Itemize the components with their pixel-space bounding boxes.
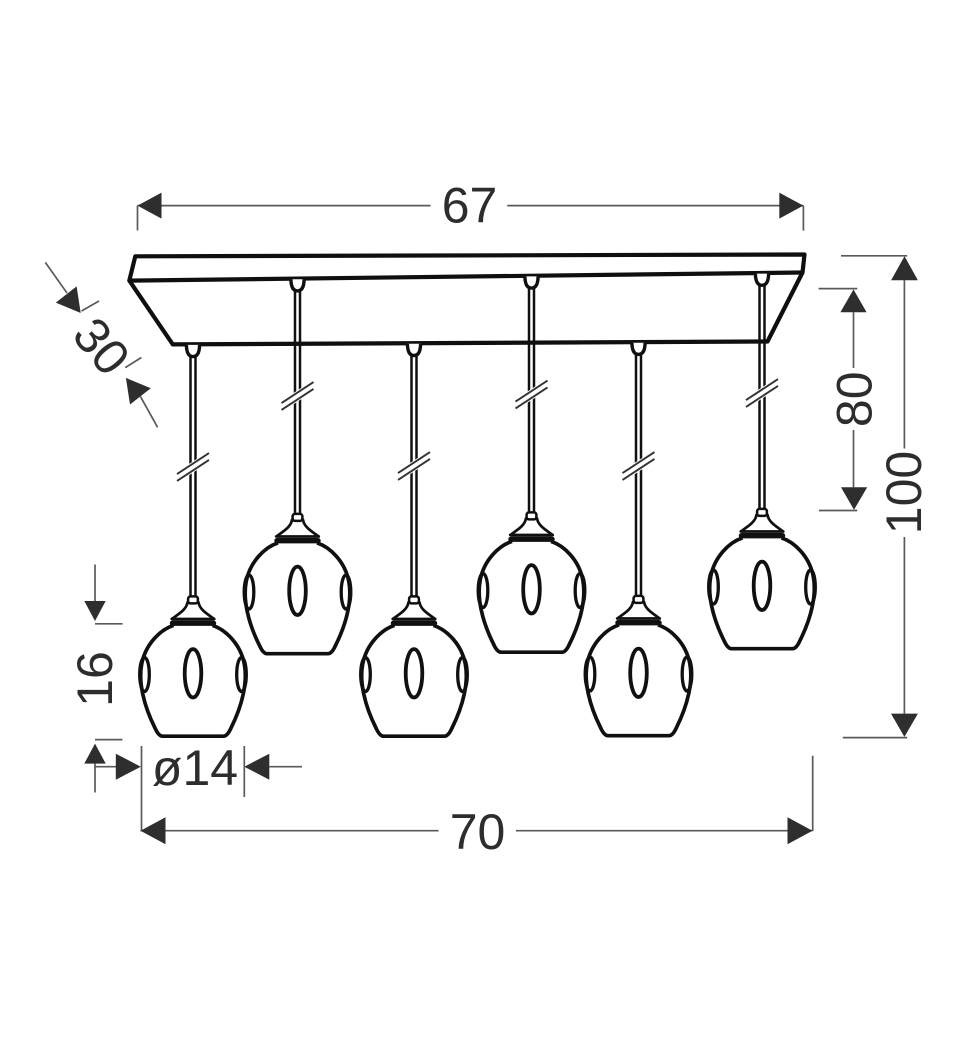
pendant 4 cord break [516,381,548,409]
dimension 30 lower arrow [126,378,151,405]
dimension 67 left extension line [137,206,139,231]
dimension 16 line upper segment [94,565,96,602]
dimension o14 left extension line [141,746,143,831]
dimension 80 line lower segment [853,430,855,487]
pendant 2 grip [291,279,304,291]
dimension 70 left arrow [141,817,166,844]
dimension 67 right extension line [802,206,804,231]
svg-text:80: 80 [827,371,883,427]
svg-text:70: 70 [450,804,506,860]
dimension 80 top extension line [819,288,858,290]
ceiling plate back bottom edge [129,273,802,281]
pendant 6 grip [755,274,768,286]
pendant 1 fitter [172,596,215,619]
pendant 4 cord [528,288,531,515]
pendant 2 cord break [282,382,314,410]
dimension 16 upper tick [95,623,123,625]
dimension 16 up arrow [84,744,105,764]
pendant 5 cord [635,354,638,598]
dimension 100 bottom extension line [843,737,907,739]
pendant 1 cord break [177,453,209,481]
dimension 80 top arrow [840,290,866,313]
pendant 2 fitter [276,514,319,537]
dimension 30 upper tick [82,301,100,311]
pendant 1 shade [140,623,247,736]
dimension 67 line left segment [138,205,431,207]
dimension 100 top arrow [891,256,918,280]
pendant 5 fitter [617,596,660,619]
dimension 67 line right segment [507,205,803,207]
dimension 30 lower tick [125,358,141,368]
pendant 3 shade [361,623,468,736]
pendant 5 shade [585,623,692,736]
pendant 3 cord [410,355,413,598]
pendant 5 grip [632,343,645,355]
dimension 70 right extension line [812,756,814,831]
dimension o14 left arrow [116,754,141,780]
svg-text:67: 67 [442,177,498,233]
pendant 6 cord break [746,379,778,407]
svg-text:ø14: ø14 [152,740,238,796]
pendant 6 cord [758,285,761,511]
svg-text:100: 100 [876,451,932,534]
svg-text:16: 16 [67,651,123,707]
dimension 100 line upper segment [903,280,905,449]
pendant 2 shade [244,541,351,654]
dimension 30 upper arrow [56,286,81,313]
ceiling plate [129,255,804,345]
dimension o14 right lead line [269,766,302,768]
pendant 1 grip [186,345,199,357]
dimension 80 line upper segment [853,312,855,368]
dimension 30 leader line upper [45,262,67,293]
pendant 5 cord break [623,452,655,480]
pendant 3 cord break [398,452,430,480]
dimension 16 line lower segment [94,764,96,793]
dimension 16 lower tick [95,739,123,741]
pendant 4 fitter [510,512,553,535]
pendant 6 shade [709,536,816,649]
dimension 100 line lower segment [903,537,905,714]
dimension 70 line left segment [141,830,439,832]
dimension 70 line right segment [516,830,813,832]
dimension o14 right arrow [244,754,269,780]
dimension 80 bottom arrow [841,487,867,510]
dimension 16 down arrow [84,601,105,621]
dimension 67 left arrow [138,193,162,219]
pendant 4 shade [478,539,585,652]
pendant 1 cord [189,356,192,598]
dimension 80 bottom extension line [819,510,857,512]
dimension 30 leader line lower [140,396,157,427]
pendant 4 grip [525,276,538,288]
pendant 6 fitter [741,509,784,532]
pendant 3 grip [407,344,420,356]
pendant 3 fitter [393,596,436,619]
dimension 70 right arrow [788,817,813,844]
dimension 100 top extension line [841,255,907,257]
dimension 100 bottom arrow [891,714,918,737]
dimension o14 left lead line [95,766,117,768]
dimension 67 right arrow [779,193,803,219]
dimension o14 right extension line [243,746,245,797]
pendant 2 cord [294,290,297,515]
